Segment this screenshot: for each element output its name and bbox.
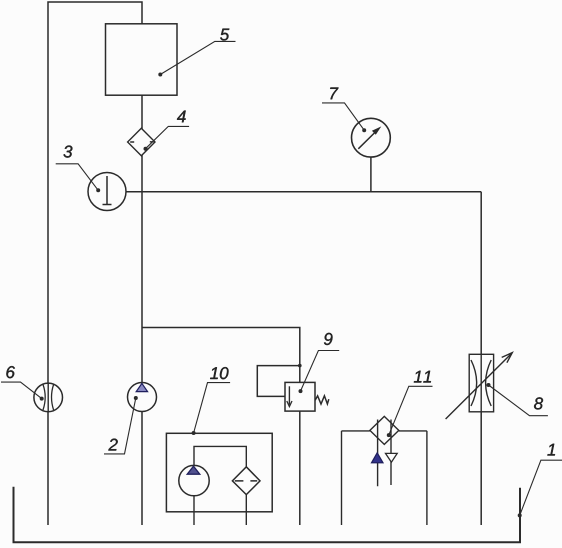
junction pilot/main [298,364,302,368]
leader label 11 [387,371,433,437]
breather pipes [378,420,391,487]
tank 1 [14,487,521,543]
wire vertical main x=142 [141,95,143,525]
suction pipes of unit 10 [194,495,246,525]
leader label 3 [56,146,100,193]
label text 7 [330,88,338,100]
filter of unit 10 [232,467,260,495]
relief valve 9 [285,382,329,411]
wire top-left loop [48,2,142,525]
unit box 10 [166,433,272,525]
box 5 [106,24,178,95]
label text 2 [108,439,117,451]
label text 3 [64,146,73,158]
pressure gauge 7 [352,118,391,157]
label text 9 [324,333,333,345]
leader label 8 [487,383,548,416]
pump 2 [128,383,157,412]
leader label 5 [158,29,235,77]
leader label 9 [299,333,340,393]
pump of unit 10 [179,465,209,495]
check valve in (filled) [372,453,384,463]
breather 11 diamond [370,416,399,444]
wire branch to valve 9 [142,328,300,383]
label text 1 [547,444,555,456]
label text 8 [534,397,543,409]
leader label 4 [144,111,190,151]
wire inside box 10 [194,446,246,467]
thermometer 3 [88,173,126,211]
wire pilot loop of valve 9 [257,366,300,397]
wire main horizontal y=192 [127,191,482,193]
label text 5 [220,29,229,41]
leader label 6 [1,366,44,401]
wire right vertical to throttle [480,192,482,525]
spring of valve 9 [315,396,329,404]
leader label 10 [192,367,231,435]
filter 4 [128,128,155,156]
breather box 11 [342,416,427,525]
leader label 2 [104,396,138,454]
label text 6 [6,366,15,378]
wire gauge drop [370,157,372,192]
leader label 7 [322,88,366,133]
throttle valve 8 [446,353,513,419]
flow indicator 6 [34,383,63,412]
label text 10 [210,367,228,379]
leader label 1 [518,444,562,518]
label text 4 [177,111,186,123]
label text 11 [414,371,431,383]
wire below valve 9 [299,411,301,525]
check valve out (open) [386,453,398,462]
